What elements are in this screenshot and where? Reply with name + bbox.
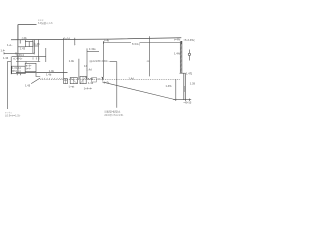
short tick x=21.5: [19, 40, 21, 44]
bottom wall left y=72.6: [16, 72, 68, 74]
svg-text:1.4b: 1.4b: [46, 74, 52, 77]
small notch horizontal: [7, 61, 11, 63]
svg-text:1.43: 1.43: [3, 57, 9, 60]
small box top: [25, 42, 33, 47]
svg-text:1.4d: 1.4d: [86, 68, 92, 71]
svg-text:•t•: •t•: [147, 60, 150, 63]
bottom-left note: [5, 110, 21, 117]
svg-text:1.43: 1.43: [25, 85, 31, 88]
symbol stem: [188, 50, 190, 61]
svg-text:1=4b•: 1=4b•: [89, 48, 96, 51]
short tick x=25.5: [24, 40, 26, 42]
svg-text:1.35: 1.35: [190, 82, 196, 85]
dim line y=53.3 with ticks: [4, 52, 34, 54]
divider y=61.5: [16, 61, 40, 63]
double wall verticals bottom right: [184, 73, 186, 99]
leader note horizontal: [18, 24, 37, 26]
leader from A22 text: [110, 61, 117, 63]
svg-text:1.4b: 1.4b: [69, 60, 75, 63]
vertical x=38.5: [38, 39, 40, 61]
dim line y=56.4: [12, 55, 46, 57]
left wall vertical: [17, 25, 19, 73]
svg-text:1.43: 1.43: [88, 82, 94, 85]
svg-text:+(.43•|+: +(.43•|+: [13, 57, 23, 60]
room divider y=46.8: [18, 46, 25, 48]
connector h y=46: [34, 45, 38, 47]
circle symbol: [188, 53, 190, 55]
svg-text:(.4b: (.4b: [22, 37, 27, 40]
shelf line y=51.4: [87, 50, 99, 52]
ticks right of row2: [33, 57, 39, 59]
svg-text:6.9分譲ペ-1.6: 6.9分譲ペ-1.6: [38, 21, 53, 25]
svg-text:L0.9×t•=1.5t·: L0.9×t•=1.5t·: [5, 115, 21, 118]
svg-text:5=41•|: 5=41•|: [132, 43, 140, 46]
box B: [25, 63, 36, 71]
svg-text:1.43: 1.43: [20, 48, 26, 51]
double vertical x=33: [33, 40, 35, 54]
fixture ticks right: [88, 78, 100, 79]
fixture box 2: [70, 78, 77, 84]
left leader vertical to bottom text: [6, 62, 8, 110]
vertical x=78.9: [78, 59, 80, 80]
small v x=26: [25, 62, 27, 64]
dimension line B: [103, 42, 131, 44]
svg-text:•45•13: •45•13: [184, 101, 192, 104]
svg-text:t×4•: t×4•: [26, 67, 31, 70]
step at wall bottom: [180, 72, 186, 74]
fixture ticks: [42, 78, 63, 79]
step down: [36, 73, 40, 77]
down arrow at x=103: [102, 77, 104, 81]
vertical x=63.6: [63, 38, 65, 80]
annotation note top-left: [38, 20, 53, 25]
dim B right tick: [180, 41, 182, 44]
fixture box 4: [92, 77, 97, 82]
svg-text:▤A22/B=A6R•·: ▤A22/B=A6R•·: [90, 60, 110, 63]
wall hatch rungs: [180, 43, 182, 73]
wall top line A: [11, 38, 181, 40]
leader to 1.43 label: [31, 78, 40, 84]
svg-text:1+L·: 1+L·: [7, 44, 13, 47]
bottom-center note: [104, 110, 124, 117]
dashed fixture line: [40, 78, 180, 80]
leader vertical x=116.8: [116, 62, 118, 108]
vertical x=45.8: [45, 48, 47, 62]
vertical x=149.6: [149, 36, 151, 76]
svg-text:t=4%: t=4%: [174, 38, 181, 41]
hatch between double wall: [184, 87, 186, 92]
svg-text:1×4=#•: 1×4=#•: [84, 87, 93, 90]
tick x=75.8 with arrow: [74, 38, 76, 44]
svg-text:=5-2.4%(: =5-2.4%(: [184, 39, 195, 42]
svg-text:1=14: 1=14: [64, 38, 71, 41]
bottom right dim line: [174, 99, 192, 101]
svg-text:L=at: L=at: [69, 86, 75, 89]
fixture box 1: [64, 79, 68, 84]
vertical x=175.8: [175, 79, 177, 99]
dim B left tick: [102, 41, 104, 44]
svg-text:1.4•: 1.4•: [1, 49, 6, 52]
svg-text:1.4%: 1.4%: [166, 85, 173, 88]
vertical x=87: [86, 48, 88, 79]
extension vertical x=103.4: [102, 42, 104, 77]
svg-text:1.47]: 1.47]: [186, 73, 192, 76]
ticks below wall: [17, 73, 20, 75]
bottom right dim ticks: [176, 99, 190, 102]
leader note vertical: [17, 25, 19, 40]
svg-text:1.4%: 1.4%: [174, 52, 181, 55]
svg-text:1.4b: 1.4b: [88, 78, 94, 81]
hatched wall right: [180, 41, 182, 73]
svg-text:1.45: 1.45: [34, 43, 40, 46]
svg-text:t=4t: t=4t: [104, 40, 109, 43]
svg-text:20.0平×7•t≠1.5t·: 20.0平×7•t≠1.5t·: [104, 114, 124, 117]
inner vertical x=11.2: [10, 56, 12, 74]
svg-text:1.4d: 1.4d: [129, 78, 135, 81]
fixture box 3: [80, 76, 86, 83]
text box A left: [12, 66, 26, 73]
long diagonal: [102, 82, 174, 100]
